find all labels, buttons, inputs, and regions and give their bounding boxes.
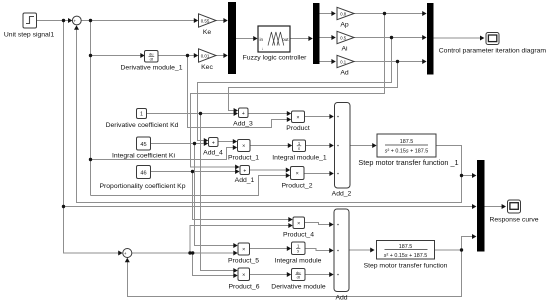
arrowhead into Add_2 in1 bbox=[329, 114, 333, 119]
svg-text:Add_1: Add_1 bbox=[235, 177, 255, 184]
arrowhead into Product_1 in1 bbox=[233, 139, 237, 144]
svg-text:0.8: 0.8 bbox=[340, 11, 346, 16]
wire error vertical bbox=[90, 21, 92, 196]
wire Kp constant to Add_1 bbox=[151, 171, 238, 173]
wire sum2 error out bbox=[132, 252, 236, 254]
arrowhead into Integral module bbox=[287, 246, 291, 251]
arrowhead into Add_2 in2 bbox=[329, 143, 333, 148]
block Fuzzy logic controller bbox=[243, 26, 308, 62]
wire demux out2 to Ai bbox=[319, 37, 334, 39]
arrowhead into Derivative module_1 bbox=[140, 53, 144, 58]
scope Response curve bbox=[489, 200, 538, 224]
arrowhead into Product_2 in1 bbox=[286, 168, 290, 173]
constant Integral coefficient Ki bbox=[112, 137, 175, 160]
gain Ap bbox=[337, 7, 354, 28]
junction Ki tap bbox=[193, 142, 196, 145]
wire feedback to sum2 bbox=[127, 250, 461, 297]
wire Ap feedback to Add_1 bbox=[191, 14, 385, 168]
svg-text:0.55: 0.55 bbox=[201, 18, 210, 23]
wire error branch to Product_1 bbox=[91, 148, 236, 160]
constant Derivative coefficient Kd bbox=[106, 109, 179, 130]
svg-text:Step motor transfer function _: Step motor transfer function _1 bbox=[358, 158, 458, 167]
wire error2 branch down to Product_6 bbox=[193, 253, 236, 276]
arrowhead into scope1 bbox=[480, 36, 484, 41]
svg-text:×: × bbox=[242, 273, 245, 279]
arrowhead into Product_6 in2 bbox=[233, 273, 237, 278]
svg-text:Ke: Ke bbox=[203, 29, 212, 36]
junction Ai tap bbox=[390, 36, 393, 39]
svg-text:s² + 0.15s + 187.5: s² + 0.15s + 187.5 bbox=[384, 253, 427, 259]
svg-text:Ap: Ap bbox=[340, 21, 349, 28]
sum1 bbox=[72, 16, 81, 28]
sum2 bbox=[123, 249, 132, 261]
wire Ai feedback to Add_4 bbox=[198, 38, 392, 141]
block Product_4 bbox=[283, 217, 314, 239]
arrowhead into Product in1 bbox=[287, 111, 291, 116]
block Integral module_1 bbox=[272, 140, 327, 162]
junction error2 up branch bbox=[188, 251, 191, 254]
wire demux out3 to Ad bbox=[319, 61, 334, 63]
svg-text:Response curve: Response curve bbox=[489, 217, 538, 224]
arrowhead into sum1 bbox=[68, 18, 72, 23]
svg-text:Ad: Ad bbox=[340, 69, 349, 76]
wire Kd tap to Product_6 bbox=[201, 114, 237, 271]
wire Product_1 to Integral module_1 bbox=[250, 145, 290, 147]
arrowhead into Product_5 in1 bbox=[233, 243, 237, 248]
svg-text:Control parameter iteration di: Control parameter iteration diagram bbox=[439, 48, 547, 55]
wire sum1 out to Ke bbox=[81, 20, 194, 22]
junction Kd tap bbox=[199, 112, 202, 115]
arrowhead into sum2 left bbox=[118, 251, 122, 256]
svg-text:+: + bbox=[242, 111, 245, 117]
junction TF2 feedback bbox=[460, 248, 463, 251]
wire Kec to mux1 bbox=[216, 55, 227, 57]
arrowhead into mux3 in2 bbox=[422, 35, 426, 40]
wire Ad to mux3 bbox=[354, 61, 425, 63]
arrowhead into mux3 in3 bbox=[422, 59, 426, 64]
junction error2 down branch bbox=[191, 251, 194, 254]
arrowhead into scope2 bbox=[502, 204, 506, 209]
svg-text:×: × bbox=[296, 171, 299, 177]
svg-text:Add_3: Add_3 bbox=[233, 121, 253, 128]
wire step to sum1 bbox=[37, 20, 72, 22]
arrowhead into Ap bbox=[331, 11, 335, 16]
gain Kec bbox=[199, 49, 217, 71]
junction de/dt tap bbox=[186, 54, 189, 57]
wire Product_2 to Add_2 bbox=[304, 173, 332, 175]
svg-text:Product_2: Product_2 bbox=[282, 183, 313, 190]
block Integral module bbox=[275, 242, 322, 265]
wire Integral module to Add bbox=[305, 249, 332, 251]
arrowhead into Fuzzy logic controller bbox=[253, 36, 257, 41]
wire Integral module_1 to Add_2 bbox=[306, 145, 333, 147]
arrowhead into Product_4 in2 bbox=[288, 223, 292, 228]
svg-text:in: in bbox=[260, 37, 264, 42]
svg-text:×: × bbox=[297, 221, 300, 227]
svg-text:Product_5: Product_5 bbox=[228, 258, 259, 265]
gain Ad bbox=[337, 55, 354, 76]
arrowhead into Product_5 in2 bbox=[233, 251, 237, 256]
svg-text:0.01: 0.01 bbox=[201, 53, 210, 58]
arrowhead into mux Response in3 bbox=[472, 234, 476, 239]
svg-text:0.1: 0.1 bbox=[340, 59, 346, 64]
demux bbox=[313, 3, 320, 64]
mux Response bbox=[477, 160, 485, 252]
svg-text:Unit step signal1: Unit step signal1 bbox=[4, 32, 54, 39]
svg-text:Derivative module_1: Derivative module_1 bbox=[121, 65, 183, 72]
arrowhead into Derivative module bbox=[287, 272, 291, 277]
svg-text:s² + 0.15s + 187.5: s² + 0.15s + 187.5 bbox=[385, 149, 428, 155]
arrowhead into Integral module_1 bbox=[288, 143, 292, 148]
arrowhead into Kec bbox=[194, 53, 198, 58]
wire Kd constant to Add_3 bbox=[147, 113, 237, 115]
block Step motor transfer function bbox=[364, 241, 448, 270]
block Step motor transfer function _1 bbox=[358, 134, 458, 167]
arrowhead into Add_2 in3 bbox=[329, 171, 333, 176]
arrowhead into mux Response in1 bbox=[472, 173, 476, 178]
block Derivative module bbox=[271, 269, 326, 291]
svg-text:Product_1: Product_1 bbox=[228, 155, 259, 162]
arrowhead into sum2 bottom bbox=[125, 258, 130, 262]
junction reference branch bbox=[62, 205, 65, 208]
sum Add_2 bbox=[332, 103, 352, 198]
svg-text:Add: Add bbox=[335, 295, 347, 302]
svg-text:Proportionality coefficient Kp: Proportionality coefficient Kp bbox=[99, 183, 185, 190]
wire Add_2 to transfer function 1 bbox=[350, 145, 375, 147]
arrowhead into Add_4 in1 bbox=[204, 138, 208, 143]
arrowhead into Ai bbox=[331, 35, 335, 40]
wire Ad feedback to Add_3 bbox=[229, 62, 398, 111]
wire error2 branch up to Product_4 bbox=[190, 226, 291, 254]
wire Product_4 to Add bbox=[305, 223, 332, 225]
svg-text:×: × bbox=[296, 115, 299, 121]
wire Ke to mux1 bbox=[216, 20, 227, 22]
arrowhead into Product_2 in2 bbox=[286, 173, 290, 178]
arrowhead into Add_1 in2 bbox=[235, 169, 239, 174]
scope Control parameter iteration diagram bbox=[439, 33, 547, 55]
junction Ap tap bbox=[383, 12, 386, 15]
arrowhead into Ke bbox=[194, 18, 198, 23]
arrowhead into Add_1 in1 bbox=[235, 165, 239, 170]
gain Ke bbox=[199, 14, 217, 36]
svg-text:×: × bbox=[242, 144, 245, 150]
arrowhead into Ad bbox=[331, 59, 335, 64]
arrowhead into demux bbox=[308, 36, 312, 41]
arrowhead into mux1 in1 bbox=[223, 18, 227, 23]
svg-text:Derivative coefficient Kd: Derivative coefficient Kd bbox=[106, 122, 179, 129]
svg-text:-: - bbox=[127, 255, 129, 261]
arrowhead into Add_4 in2 bbox=[204, 141, 208, 146]
wire error to Derivative module_1 bbox=[91, 55, 144, 57]
svg-text:Product: Product bbox=[286, 125, 310, 132]
svg-text:×: × bbox=[242, 247, 245, 253]
wire Add_3 to Product bbox=[248, 113, 290, 115]
svg-text:Integral module_1: Integral module_1 bbox=[272, 155, 327, 162]
wire Fuzzy logic controller to demux bbox=[290, 38, 311, 40]
junction step tap bbox=[62, 19, 65, 22]
junction error derivative row bbox=[89, 54, 92, 57]
svg-text:Add_2: Add_2 bbox=[332, 191, 352, 198]
wire reference to mux Response bbox=[64, 206, 475, 208]
arrowhead into mux1 in2 bbox=[223, 53, 227, 58]
svg-text:Product_4: Product_4 bbox=[283, 232, 314, 239]
svg-text:Product_6: Product_6 bbox=[229, 284, 260, 291]
arrowhead into Product_6 in1 bbox=[233, 268, 237, 273]
wire Product to Add_2 bbox=[305, 116, 333, 118]
wire transfer function 2 out bbox=[435, 249, 462, 251]
wire branch to mux Response in1 bbox=[462, 175, 475, 177]
arrowhead into transfer function 1 bbox=[372, 143, 376, 148]
arrowhead into Product in2 bbox=[287, 117, 291, 122]
svg-text:0.5: 0.5 bbox=[340, 35, 346, 40]
wire Product_5 to Integral module bbox=[250, 248, 290, 250]
svg-text:+: + bbox=[212, 140, 215, 146]
svg-text:Ai: Ai bbox=[341, 45, 348, 52]
block Unit step signal1 bbox=[4, 13, 54, 39]
junction Ad tap bbox=[396, 60, 399, 63]
wire mux3 to scope1 bbox=[434, 37, 483, 39]
wire Ap to mux3 bbox=[354, 13, 425, 15]
wire Add to transfer function 2 bbox=[349, 249, 373, 251]
gain Ai bbox=[337, 31, 354, 52]
svg-text:out: out bbox=[282, 37, 289, 42]
wire demux out1 to Ap bbox=[319, 13, 334, 15]
arrowhead into Add_3 in2 bbox=[234, 111, 238, 116]
wire Derivative module to Add bbox=[305, 274, 332, 276]
arrowhead into Add in2 bbox=[329, 248, 333, 253]
wire Add_4 to Product_1 bbox=[218, 141, 235, 143]
mux1 bbox=[228, 2, 236, 74]
svg-text:↓: ↓ bbox=[262, 46, 264, 51]
wire error branch to Product_2 bbox=[91, 176, 289, 196]
arrowhead into Product_1 in2 bbox=[233, 145, 237, 150]
arrowhead into mux3 in1 bbox=[422, 11, 426, 16]
arrowhead into Add_3 in1 bbox=[234, 108, 238, 113]
wire mux1 to Fuzzy logic controller bbox=[236, 38, 256, 40]
svg-text:1: 1 bbox=[140, 112, 143, 118]
svg-text:Kec: Kec bbox=[201, 64, 213, 71]
svg-text:+: + bbox=[243, 168, 246, 174]
svg-text:Add_4: Add_4 bbox=[203, 150, 223, 157]
junction error to Product_1 bbox=[89, 158, 92, 161]
wire Ki constant to Add_4 bbox=[151, 143, 207, 145]
svg-text:Integral coefficient Ki: Integral coefficient Ki bbox=[112, 153, 175, 160]
wire de/dt tap to Product bbox=[188, 56, 290, 128]
wire step tap down to sum2 bbox=[64, 21, 122, 254]
block Product_1 bbox=[228, 140, 259, 162]
wire Ki tap to Product_5 bbox=[195, 144, 237, 246]
wire Add_1 to Product_2 bbox=[250, 169, 289, 171]
svg-text:-: - bbox=[77, 22, 79, 28]
arrowhead into mux Response in2 bbox=[472, 204, 476, 209]
svg-text:Integral module: Integral module bbox=[275, 258, 322, 265]
arrowhead into transfer function 2 bbox=[370, 248, 374, 253]
wire Product_6 to Derivative module bbox=[250, 274, 290, 276]
wire mux Response to scope2 bbox=[485, 206, 505, 208]
svg-text:Fuzzy logic controller: Fuzzy logic controller bbox=[243, 55, 308, 62]
arrowhead into sum1 bottom bbox=[74, 25, 79, 29]
block Derivative module_1 bbox=[121, 51, 183, 72]
block Product_6 bbox=[229, 268, 260, 291]
sum Add_3 bbox=[233, 108, 253, 128]
arrowhead into Add in1 bbox=[329, 222, 333, 227]
arrowhead into Add in3 bbox=[329, 272, 333, 277]
svg-text:Step motor transfer function: Step motor transfer function bbox=[364, 263, 448, 270]
wire branch to mux Response in3 bbox=[462, 237, 474, 251]
block Product_2 bbox=[282, 167, 313, 190]
svg-text:46: 46 bbox=[140, 171, 146, 177]
block Product bbox=[286, 111, 310, 132]
sum Add_4 bbox=[203, 138, 223, 157]
junction TF1 feedback bbox=[460, 174, 463, 177]
mux3 bbox=[427, 3, 434, 75]
arrowhead into Product_4 in1 bbox=[288, 217, 292, 222]
svg-text:187.5: 187.5 bbox=[399, 244, 413, 250]
block Product_5 bbox=[228, 243, 259, 265]
sum Add bbox=[334, 209, 349, 302]
wire Ai to mux3 bbox=[354, 37, 425, 39]
junction Kp tap bbox=[191, 170, 194, 173]
junction error tap bbox=[89, 19, 92, 22]
svg-text:Derivative module: Derivative module bbox=[271, 284, 326, 291]
wire Derivative module_1 to Kec bbox=[158, 55, 195, 57]
svg-text:45: 45 bbox=[140, 142, 146, 148]
constant Proportionality coefficient Kp bbox=[99, 166, 185, 191]
svg-text:187.5: 187.5 bbox=[400, 139, 414, 145]
sum Add_1 bbox=[235, 166, 255, 185]
wire Kp tap to Product_4 bbox=[193, 172, 292, 220]
wire transfer function 1 out feedback to sum1 bbox=[77, 27, 462, 203]
